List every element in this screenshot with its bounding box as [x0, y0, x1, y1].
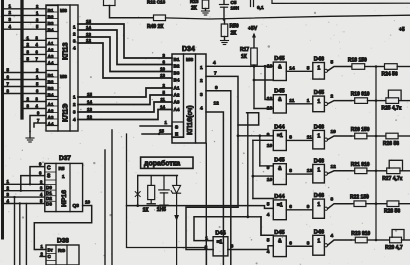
D34 S input wires — [140, 125, 172, 127]
svg-text:4: 4 — [73, 46, 76, 51]
svg-text:9: 9 — [267, 132, 270, 138]
svg-text:12: 12 — [331, 164, 337, 170]
top right box — [272, 0, 410, 3]
gate D44 row3 — [273, 130, 286, 150]
svg-text:D45: D45 — [274, 230, 284, 236]
svg-text:2: 2 — [200, 78, 203, 84]
wire row3 pin1 — [238, 135, 273, 137]
resistor R27 — [376, 170, 387, 172]
svg-text:D46: D46 — [314, 57, 324, 63]
svg-text:13: 13 — [160, 73, 165, 78]
svg-text:КП16(сч): КП16(сч) — [187, 105, 194, 135]
wire R12 branch — [110, 6, 154, 18]
wires D33 upper outputs to D34 — [78, 24, 172, 58]
svg-text:=1: =1 — [277, 202, 283, 208]
svg-text:C5: C5 — [231, 0, 237, 5]
svg-text:13: 13 — [267, 106, 273, 112]
svg-text:D45: D45 — [274, 89, 284, 95]
svg-text:9: 9 — [307, 204, 310, 210]
svg-text:D1: D1 — [46, 191, 52, 196]
ground under D33 — [29, 132, 31, 139]
inverter D45 row2 — [313, 96, 325, 112]
inverter D46 row4 — [313, 164, 325, 183]
svg-text:10: 10 — [331, 129, 337, 135]
wire zener down arrow — [176, 193, 178, 265]
svg-text:&: & — [278, 97, 282, 103]
dorabotka label box — [141, 157, 193, 168]
svg-text:R24 56: R24 56 — [382, 72, 398, 78]
svg-text:2: 2 — [73, 102, 76, 107]
wire inverter output row1 — [328, 67, 351, 71]
svg-text:15: 15 — [86, 19, 91, 24]
svg-text:8: 8 — [289, 134, 292, 140]
wire elbow D44 pin2 — [186, 207, 238, 249]
svg-text:5: 5 — [267, 201, 270, 207]
svg-text:MS: MS — [60, 8, 67, 13]
wire row4 pin1 — [260, 165, 274, 167]
svg-text:Dт: Dт — [48, 248, 54, 253]
resistor R12 cropped at top — [103, 0, 105, 6]
wire gate-inverter row6 — [286, 245, 313, 247]
svg-text:2: 2 — [73, 32, 76, 37]
svg-text:A4: A4 — [48, 60, 54, 65]
gate D44 row5 — [273, 200, 286, 220]
svg-text:4: 4 — [267, 212, 270, 218]
wire vert row3b — [252, 140, 254, 198]
svg-text:&: & — [278, 166, 282, 172]
svg-text:КП13: КП13 — [61, 42, 70, 60]
svg-text:1: 1 — [317, 99, 320, 105]
svg-text:MS: MS — [60, 74, 67, 79]
svg-text:D3: D3 — [46, 202, 52, 207]
svg-text:=1: =1 — [217, 240, 223, 246]
dorabotka top wire — [138, 175, 178, 177]
svg-text:5: 5 — [307, 65, 310, 71]
svg-text:R22 150: R22 150 — [350, 195, 369, 201]
svg-text:3: 3 — [73, 110, 76, 115]
svg-text:D44: D44 — [274, 124, 285, 130]
svg-text:ИР16: ИР16 — [61, 190, 68, 207]
wire D34 out3 — [206, 91, 231, 265]
svg-text:11: 11 — [307, 134, 312, 140]
svg-text:8: 8 — [331, 197, 334, 203]
D33 upper B cells — [46, 6, 58, 32]
svg-text:2: 2 — [331, 94, 334, 100]
svg-text:B4: B4 — [48, 92, 54, 97]
svg-text:12: 12 — [86, 38, 91, 43]
wire inverter output row2 — [328, 101, 351, 104]
svg-text:5: 5 — [267, 237, 270, 243]
svg-text:1Н5: 1Н5 — [157, 207, 166, 213]
wire gate-inverter row3 — [286, 139, 313, 141]
resistor R18 — [350, 66, 353, 68]
resistor R25 — [376, 100, 386, 102]
wires D33 upper A inputs — [22, 39, 46, 41]
wire vertical mid — [247, 113, 249, 217]
svg-text:7: 7 — [214, 71, 217, 77]
IC D38 body — [46, 245, 79, 265]
wire row5 pin1 — [253, 198, 273, 200]
svg-text:14: 14 — [87, 99, 92, 104]
svg-text:R25 4,7к: R25 4,7к — [381, 106, 402, 112]
svg-text:12: 12 — [87, 114, 92, 119]
svg-text:D37: D37 — [59, 155, 71, 162]
svg-text:3: 3 — [231, 244, 234, 250]
svg-text:1: 1 — [317, 133, 320, 139]
svg-text:1: 1 — [317, 66, 320, 72]
svg-text:доработка: доработка — [144, 160, 180, 168]
gate D45 row2 — [273, 95, 286, 113]
svg-text:2К: 2К — [231, 31, 238, 37]
svg-text:1: 1 — [317, 238, 320, 244]
D33 lower B cells — [46, 71, 58, 97]
resistor R20 — [351, 135, 355, 137]
wire gate-inverter row2 — [286, 103, 313, 105]
svg-text:14: 14 — [289, 65, 295, 71]
capacitor 1N5 — [163, 176, 165, 190]
resistor R50 — [221, 24, 228, 37]
svg-text:14: 14 — [86, 25, 91, 30]
svg-text:A4: A4 — [48, 121, 54, 126]
D37 C S input elbows — [30, 167, 45, 185]
svg-text:R28 56: R28 56 — [384, 209, 400, 215]
resistor R21 — [351, 170, 355, 172]
D33 lower A cells — [46, 100, 58, 126]
wire jog — [238, 113, 259, 125]
svg-text:&: & — [278, 65, 282, 71]
svg-text:2: 2 — [205, 245, 208, 251]
inverter D46 row6 — [313, 235, 325, 255]
capacitor C4 — [250, 0, 252, 7]
svg-text:2К: 2К — [191, 6, 198, 12]
svg-text:+5V: +5V — [248, 26, 258, 32]
resistor 1K — [150, 176, 152, 186]
svg-text:D46: D46 — [314, 158, 324, 164]
wires D33 lower B inputs — [4, 72, 46, 74]
svg-text:B1: B1 — [174, 57, 180, 62]
wires D33 upper B inputs — [4, 8, 46, 10]
svg-text:10: 10 — [85, 200, 91, 205]
svg-text:12: 12 — [267, 96, 273, 102]
svg-text:12: 12 — [214, 101, 220, 107]
svg-text:RG: RG — [58, 248, 65, 254]
resistor R23 — [351, 239, 355, 241]
capacitor C5 — [223, 0, 225, 4]
wire D34 out1 — [206, 65, 273, 67]
svg-text:A2: A2 — [174, 93, 180, 98]
svg-text:C: C — [47, 166, 51, 172]
wire elbow A4 — [34, 123, 46, 127]
resistor R49 — [154, 15, 166, 21]
resistor R28 — [376, 203, 387, 205]
svg-text:R26 56: R26 56 — [383, 141, 399, 147]
wire elbow A3 — [30, 116, 46, 132]
svg-text:R18 150: R18 150 — [348, 58, 367, 64]
wire long vertical A — [104, 150, 106, 265]
dorabotka left wire with break — [137, 176, 139, 206]
D37 input wires — [4, 183, 45, 185]
D37 output wire pin10 — [34, 206, 91, 250]
svg-text:3: 3 — [73, 39, 76, 44]
svg-text:5: 5 — [331, 60, 334, 66]
top bus wire — [166, 15, 410, 19]
svg-text:D45: D45 — [274, 56, 284, 62]
svg-text:15: 15 — [159, 129, 164, 134]
svg-text:13: 13 — [87, 107, 92, 112]
gate D45 row1 — [273, 62, 286, 80]
svg-text:4: 4 — [331, 233, 334, 239]
svg-text:Q3: Q3 — [73, 203, 80, 209]
svg-text:1: 1 — [317, 202, 320, 208]
IC D37 body — [45, 163, 83, 211]
D33 upper A cells — [46, 39, 58, 65]
resistor R24 — [376, 66, 385, 68]
svg-text:КЛ1Э: КЛ1Э — [61, 103, 70, 122]
wire long vertical B — [111, 130, 113, 265]
wire inverter output row6 — [328, 240, 351, 245]
svg-text:=1: =1 — [277, 133, 283, 139]
svg-text:13: 13 — [307, 168, 313, 174]
svg-text:11: 11 — [289, 98, 294, 104]
svg-text:R50: R50 — [230, 24, 239, 30]
ground R13 — [202, 11, 210, 15]
svg-text:8: 8 — [289, 168, 292, 174]
svg-text:13: 13 — [86, 32, 91, 37]
svg-text:11: 11 — [160, 97, 165, 102]
resistor R17 — [251, 48, 258, 65]
svg-text:B3: B3 — [174, 71, 180, 76]
resistor R19 — [351, 100, 355, 102]
svg-text:4: 4 — [73, 117, 76, 122]
resistor R22 — [351, 203, 354, 205]
svg-text:14: 14 — [160, 105, 165, 110]
wire long vertical C — [127, 134, 207, 265]
gate D45 row4 — [273, 164, 286, 185]
svg-text:R5: R5 — [59, 166, 65, 171]
long wire to row5 pin2 — [127, 206, 274, 209]
wire D34 edge down — [205, 144, 207, 265]
svg-text:D44: D44 — [274, 194, 285, 200]
wire elbow D44 pin1 — [194, 217, 248, 241]
inverter D46 row3 — [313, 130, 325, 149]
svg-text:D34: D34 — [182, 46, 195, 53]
svg-text:D44: D44 — [215, 231, 226, 237]
left border bus — [1, 0, 4, 238]
svg-text:9: 9 — [215, 85, 218, 91]
svg-text:D45: D45 — [274, 158, 284, 164]
svg-text:1: 1 — [205, 236, 208, 242]
wires D33 lower A inputs — [22, 101, 46, 103]
wire D34 out2 — [206, 76, 238, 207]
svg-text:R27 4,7к: R27 4,7к — [382, 176, 403, 182]
D38 pin wires — [40, 256, 46, 258]
IC D33 multiplexer — [46, 5, 78, 131]
zener diode — [176, 176, 178, 186]
thick bus line — [20, 0, 23, 118]
svg-text:18: 18 — [267, 64, 273, 70]
svg-text:1: 1 — [307, 98, 310, 104]
svg-text:R29 4,7: R29 4,7 — [385, 245, 403, 251]
svg-text:4: 4 — [200, 105, 203, 111]
svg-text:D46: D46 — [314, 229, 324, 235]
svg-text:R49 2К: R49 2К — [147, 24, 164, 30]
svg-text:D46: D46 — [314, 124, 324, 130]
wire row2 pin2 — [254, 108, 273, 110]
svg-text:15: 15 — [87, 92, 92, 97]
inverter D46 row1 — [313, 63, 325, 80]
svg-text:D38: D38 — [57, 238, 69, 245]
gate D45 row6 — [273, 236, 286, 257]
wire inverter output row4 — [328, 171, 351, 174]
svg-text:D2: D2 — [46, 196, 52, 201]
wire row6 pin1 — [261, 217, 273, 236]
svg-text:1: 1 — [73, 95, 76, 100]
svg-text:R12 C13: R12 C13 — [147, 0, 166, 5]
wire D44 output to row6 pin2 — [228, 246, 273, 250]
resistor R26 — [376, 135, 386, 137]
svg-text:1: 1 — [73, 25, 76, 30]
svg-text:0,1: 0,1 — [257, 5, 264, 11]
svg-text:3: 3 — [307, 240, 310, 246]
wire row6 pin1 from elbow — [248, 216, 261, 218]
svg-text:R13: R13 — [190, 0, 199, 4]
R17 pulldown lead — [253, 65, 255, 109]
svg-text:1: 1 — [62, 174, 65, 179]
IC D34 body — [172, 54, 206, 143]
svg-text:&: & — [278, 238, 282, 244]
svg-text:A4: A4 — [174, 107, 180, 112]
wire row4 pin2 — [253, 175, 273, 177]
svg-text:1: 1 — [317, 167, 320, 173]
wire to row2 pin1 — [265, 66, 273, 99]
svg-text:D0: D0 — [46, 185, 52, 190]
svg-text:B2: B2 — [174, 64, 180, 69]
inverter D46 row5 — [313, 199, 325, 218]
svg-text:R19 910: R19 910 — [351, 92, 370, 98]
svg-text:1К: 1К — [241, 54, 248, 60]
svg-text:+5: +5 — [399, 27, 405, 33]
resistor R29 — [376, 239, 390, 241]
svg-text:R21 910: R21 910 — [351, 162, 370, 168]
wires D33 lower outputs to D34 A inputs — [78, 88, 172, 97]
svg-text:10Н: 10Н — [231, 6, 240, 11]
svg-text:3: 3 — [200, 92, 203, 98]
wire D34 out4 — [206, 112, 223, 265]
wire vert row3-4 — [259, 136, 261, 166]
svg-text:R20 150: R20 150 — [351, 127, 370, 133]
resistor R13 — [202, 0, 209, 9]
svg-text:10: 10 — [267, 143, 273, 149]
svg-text:MS: MS — [186, 57, 194, 63]
ground R50 — [221, 41, 229, 45]
svg-text:10: 10 — [160, 67, 165, 72]
svg-text:R17: R17 — [240, 47, 249, 53]
wire inverter output row3 — [328, 136, 351, 140]
svg-text:A1: A1 — [174, 86, 180, 91]
svg-text:4: 4 — [213, 60, 216, 66]
svg-text:1К: 1К — [143, 208, 150, 214]
svg-text:D46: D46 — [314, 193, 324, 199]
D34 S cell — [172, 122, 184, 137]
svg-text:6: 6 — [289, 240, 292, 246]
svg-text:A3: A3 — [174, 100, 180, 105]
wire gate-inverter row4 — [286, 173, 313, 175]
wire gate-inverter row5 — [286, 209, 313, 211]
wire inverter output row5 — [328, 204, 351, 209]
wire gate-inverter row1 — [286, 70, 313, 72]
svg-text:B4: B4 — [174, 78, 180, 83]
svg-text:R23 910: R23 910 — [351, 231, 370, 237]
svg-text:6: 6 — [289, 204, 292, 210]
wire row1 pin2 — [254, 79, 273, 81]
svg-text:B4: B4 — [48, 27, 54, 32]
svg-text:D45: D45 — [314, 90, 324, 96]
ladder vertical — [375, 67, 377, 241]
wires to bottom edge — [14, 197, 16, 265]
svg-text:1: 1 — [200, 65, 203, 71]
svg-text:10: 10 — [267, 177, 273, 183]
wire row3 pin2 — [253, 139, 273, 141]
